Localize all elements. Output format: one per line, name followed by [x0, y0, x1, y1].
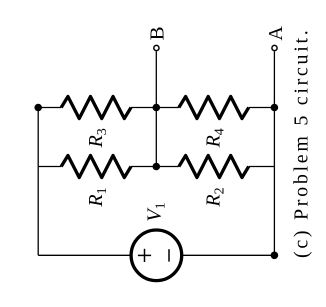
svg-text:A: A	[265, 26, 287, 41]
svg-text:B: B	[147, 26, 169, 40]
svg-text:(c) Problem 5 circuit.: (c) Problem 5 circuit.	[291, 28, 313, 258]
